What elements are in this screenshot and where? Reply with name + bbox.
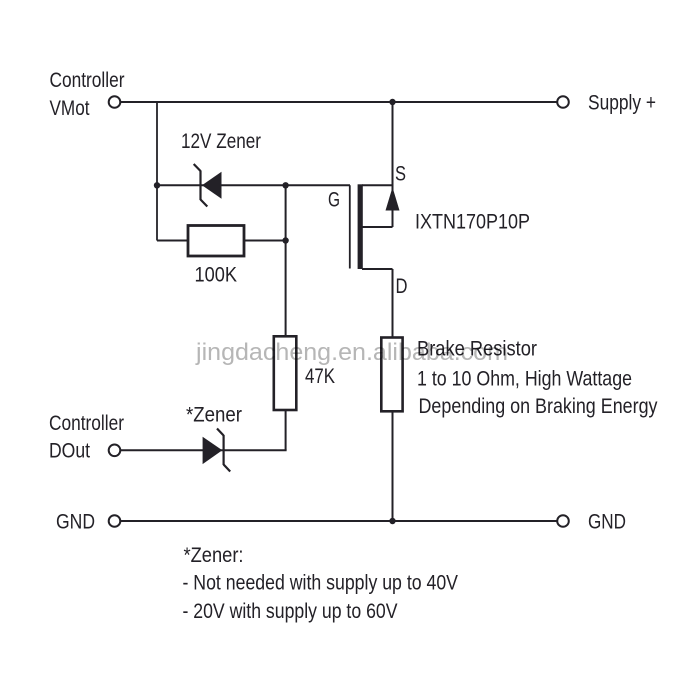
wire source vertical bbox=[392, 102, 394, 227]
svg-text:IXTN170P10P: IXTN170P10P bbox=[415, 210, 530, 234]
junction left vertical / zener wire bbox=[154, 182, 160, 188]
zener diode *Zener (anode left, cathode right) bbox=[203, 429, 231, 472]
resistor 100K bbox=[188, 226, 244, 287]
wire 100K row bbox=[157, 240, 286, 242]
watermark jingdacheng.en.alibaba.com bbox=[195, 339, 508, 366]
svg-text:*Zener: *Zener bbox=[186, 403, 242, 427]
terminal DOut bbox=[109, 445, 121, 457]
wire GND rail bbox=[121, 520, 558, 522]
channel bar bbox=[358, 184, 363, 269]
svg-text:- 20V with supply up to 60V: - 20V with supply up to 60V bbox=[183, 599, 399, 623]
wire drain vertical to brake resistor bbox=[392, 269, 394, 338]
label Brake Resistor annotation bbox=[417, 337, 658, 419]
wire zener row to gate bbox=[157, 184, 350, 186]
svg-text:Depending on Braking Energy: Depending on Braking Energy bbox=[419, 394, 658, 418]
svg-text:GND: GND bbox=[588, 510, 626, 534]
junction GND rail / brake resistor bbox=[389, 518, 395, 524]
pin label G bbox=[328, 188, 340, 212]
gate electrode bbox=[349, 185, 351, 268]
label GND right bbox=[588, 510, 626, 534]
terminal GND right bbox=[557, 515, 569, 527]
svg-text:47K: 47K bbox=[305, 364, 336, 388]
wire 47K bottom to DOut row bbox=[285, 410, 287, 450]
svg-text:Controller: Controller bbox=[50, 68, 125, 92]
junction 100K / right vertical bbox=[282, 237, 288, 243]
resistor 47K bbox=[274, 336, 336, 410]
svg-text:jingdacheng.en.alibaba.com: jingdacheng.en.alibaba.com bbox=[195, 339, 508, 366]
svg-text:GND: GND bbox=[56, 510, 95, 534]
svg-text:100K: 100K bbox=[195, 263, 238, 287]
pin label D bbox=[396, 274, 408, 298]
terminal GND left bbox=[109, 515, 121, 527]
label GND left bbox=[56, 510, 95, 534]
junction top rail / source bbox=[389, 99, 395, 105]
wire DOut row bbox=[121, 449, 287, 451]
wire left vertical from top rail bbox=[156, 102, 158, 241]
label Controller DOut bbox=[49, 411, 124, 463]
svg-text:S: S bbox=[395, 162, 406, 186]
svg-text:12V Zener: 12V Zener bbox=[181, 129, 261, 153]
svg-text:- Not needed with supply up to: - Not needed with supply up to 40V bbox=[183, 571, 459, 595]
label 12V Zener bbox=[181, 129, 261, 153]
zener diode 12V (cathode left, anode right) bbox=[194, 164, 222, 207]
svg-text:DOut: DOut bbox=[49, 439, 90, 463]
svg-text:Controller: Controller bbox=[49, 411, 124, 435]
source tap bbox=[362, 184, 393, 186]
source arrow bbox=[386, 187, 400, 210]
middle tap bbox=[362, 226, 393, 228]
svg-text:*Zener:: *Zener: bbox=[184, 543, 244, 567]
svg-text:G: G bbox=[328, 188, 340, 212]
svg-text:D: D bbox=[396, 274, 408, 298]
label *Zener bbox=[186, 403, 242, 427]
label Supply + bbox=[588, 91, 656, 115]
terminal Supply+ bbox=[557, 96, 569, 108]
svg-text:1 to 10 Ohm, High Wattage: 1 to 10 Ohm, High Wattage bbox=[417, 367, 632, 391]
wire right vertical down to 47K bbox=[285, 185, 287, 336]
svg-text:Supply +: Supply + bbox=[588, 91, 656, 115]
junction zener wire / right vertical bbox=[282, 182, 288, 188]
resistor brake bbox=[381, 338, 402, 412]
label Controller VMot bbox=[50, 68, 125, 120]
note *Zener footnote bbox=[183, 543, 459, 623]
label IXTN170P10P bbox=[415, 210, 530, 234]
wire VMot to Supply+ (top rail) bbox=[121, 101, 558, 103]
transistor Q1 IXTN170P10P p-channel MOSFET bbox=[350, 184, 400, 269]
terminal VMot bbox=[109, 96, 121, 108]
wire brake resistor to GND rail bbox=[392, 411, 394, 521]
svg-text:VMot: VMot bbox=[50, 96, 90, 120]
pin label S bbox=[395, 162, 406, 186]
drain tap bbox=[362, 268, 393, 270]
